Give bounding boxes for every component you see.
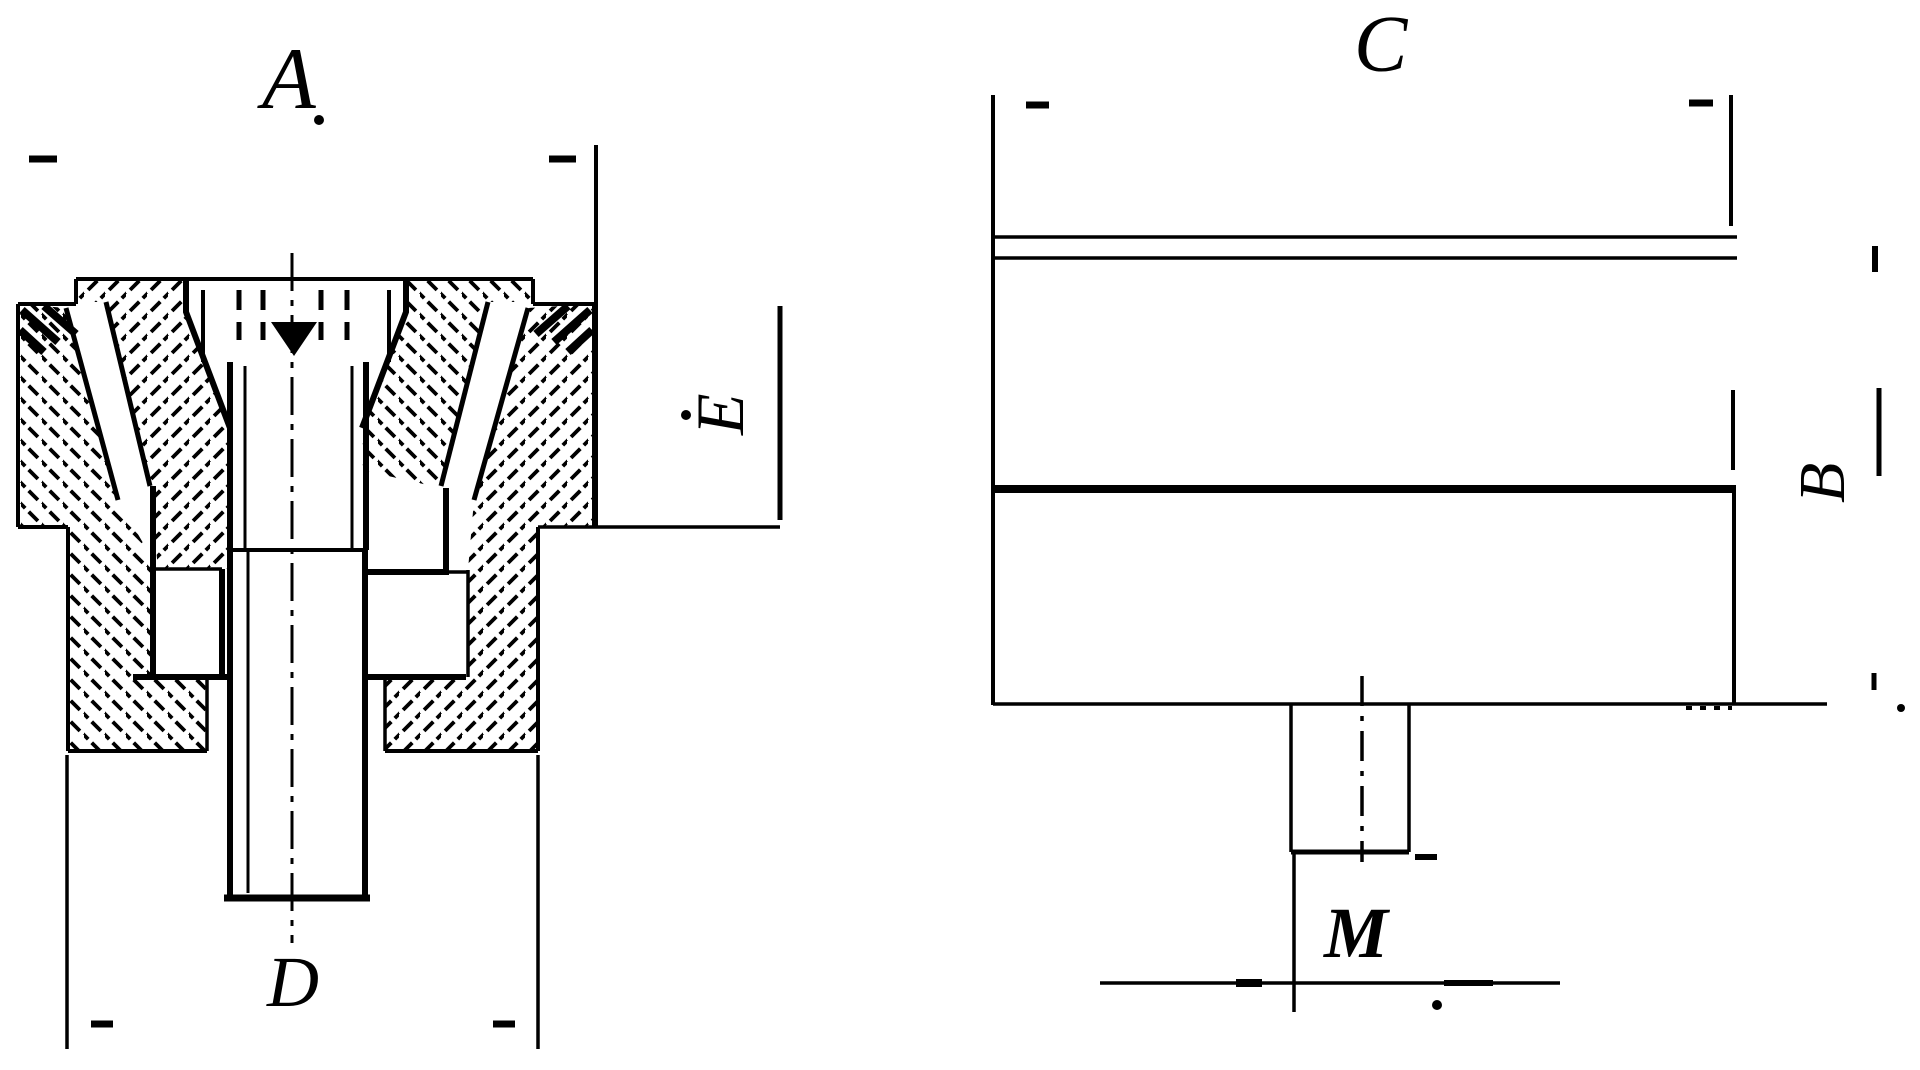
bolt point (drill cone) — [271, 322, 317, 356]
bottom surface right — [385, 749, 538, 753]
plate left edge with extension — [991, 95, 995, 705]
dim C tick left — [1026, 102, 1049, 109]
dim E line — [778, 306, 783, 520]
dim A tick left — [29, 156, 57, 163]
svg-text:E: E — [682, 393, 758, 436]
bolt tip cap — [224, 895, 370, 902]
dim D extension left — [65, 755, 69, 1049]
insert cone edge right — [474, 308, 528, 500]
right step with E extension — [538, 525, 780, 529]
dim D extension right — [536, 755, 540, 1049]
dim A extension line — [594, 145, 598, 527]
outer profile left top step — [18, 279, 76, 304]
dim A tick right — [549, 156, 576, 163]
stem cap side tick — [1415, 854, 1437, 860]
stem centerline — [1360, 676, 1364, 862]
chevron rib right — [443, 488, 449, 574]
stem left edge — [1289, 705, 1293, 852]
clearance void right — [368, 576, 468, 676]
lower right wall — [536, 527, 540, 751]
svg-text:M: M — [1323, 893, 1391, 973]
bolt upper body left edges — [227, 362, 233, 550]
outer right wall — [592, 304, 596, 527]
outer profile right top step — [533, 279, 594, 304]
bolt shank right edge — [362, 550, 368, 899]
flange gap edge left — [205, 676, 209, 751]
insert left hatched region — [76, 279, 230, 569]
corner blob left — [20, 306, 76, 352]
bottom line ticks — [1686, 706, 1732, 710]
svg-text:C: C — [1354, 1, 1409, 89]
dim B line upper arrow — [1872, 246, 1878, 272]
clearance bore left: top, left, right thick, bottom thick — [156, 567, 222, 571]
plate top double line 1 — [993, 235, 1737, 239]
insert inner channel right — [362, 279, 406, 428]
bottom surface left — [68, 749, 207, 753]
holder left hatched region — [18, 304, 207, 751]
holder right hatched region — [385, 304, 594, 751]
flange gap edge right — [383, 677, 387, 751]
corner blob right — [536, 306, 592, 352]
chevron rib left — [150, 486, 156, 677]
dim B lower arrow — [1872, 673, 1877, 690]
dim D tick left — [91, 1021, 113, 1028]
stem right edge — [1407, 705, 1411, 852]
centerline bolt — [291, 253, 294, 943]
dim C tick right — [1689, 100, 1713, 107]
outer profile top surface — [76, 277, 533, 281]
bolt shank left edges — [227, 550, 233, 899]
svg-text:A: A — [257, 31, 317, 128]
dim B ext dash — [1877, 388, 1882, 476]
plate right edge dash — [1731, 390, 1735, 470]
plate right edge lower — [1732, 489, 1736, 704]
dim M line — [1100, 981, 1560, 985]
dim C extension right — [1729, 95, 1733, 226]
insert right hatched region — [362, 279, 533, 488]
dim M tick left — [1236, 979, 1262, 987]
bolt upper body right edges — [363, 362, 369, 550]
insert outer cone left — [106, 302, 150, 486]
insert outer cone right — [441, 302, 488, 486]
svg-text:D: D — [266, 942, 319, 1022]
plate thick mid line — [993, 485, 1736, 493]
stem bottom cap — [1291, 850, 1409, 855]
bolt thread dashes top — [239, 290, 347, 340]
plate bottom line — [993, 702, 1827, 706]
left step — [18, 525, 68, 529]
dim M tick right — [1444, 980, 1493, 986]
outer left wall — [16, 304, 20, 527]
counterbore edge right — [387, 290, 391, 362]
svg-text:B: B — [1786, 463, 1859, 503]
plate top double line 2 — [993, 256, 1737, 260]
lower left wall — [66, 527, 70, 751]
insert inner channel left — [186, 279, 230, 428]
clearance bore right: top thick, left thick, bottom thick, right — [362, 569, 449, 575]
counterbore edge left — [201, 290, 205, 362]
insert cone edge left — [66, 308, 118, 500]
stem left extension down — [1292, 852, 1296, 1012]
bolt head seat line — [230, 548, 367, 552]
dim D tick right — [493, 1021, 515, 1028]
clearance void left — [156, 569, 222, 676]
